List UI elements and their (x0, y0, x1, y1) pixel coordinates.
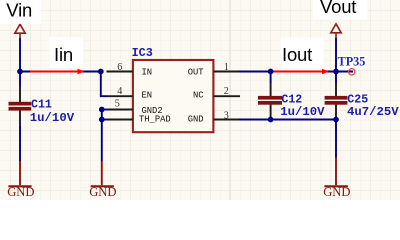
svg-text:TP35: TP35 (338, 55, 366, 69)
svg-text:Iin: Iin (54, 44, 73, 65)
svg-text:OUT: OUT (188, 68, 204, 78)
svg-text:Iout: Iout (282, 44, 312, 65)
svg-text:1u/10V: 1u/10V (280, 105, 325, 119)
svg-text:GND: GND (7, 185, 34, 199)
svg-text:Vout: Vout (320, 0, 356, 17)
svg-text:2: 2 (224, 86, 229, 97)
svg-text:C11: C11 (31, 99, 52, 112)
svg-text:GND: GND (89, 185, 116, 199)
svg-text:6: 6 (117, 62, 122, 73)
svg-text:IN: IN (142, 68, 153, 78)
svg-text:TH_PAD: TH_PAD (139, 115, 171, 125)
svg-text:NC: NC (193, 91, 204, 101)
svg-text:IC3: IC3 (132, 46, 153, 60)
svg-text:GND: GND (323, 185, 350, 199)
svg-text:Vin: Vin (6, 0, 32, 21)
svg-text:1: 1 (224, 62, 229, 73)
svg-text:GND: GND (188, 115, 204, 125)
svg-text:4u7/25V: 4u7/25V (347, 105, 399, 119)
svg-text:3: 3 (224, 111, 229, 122)
svg-text:1u/10V: 1u/10V (30, 111, 75, 125)
svg-text:4: 4 (117, 86, 122, 97)
svg-text:5: 5 (115, 99, 120, 110)
svg-text:EN: EN (142, 91, 153, 101)
